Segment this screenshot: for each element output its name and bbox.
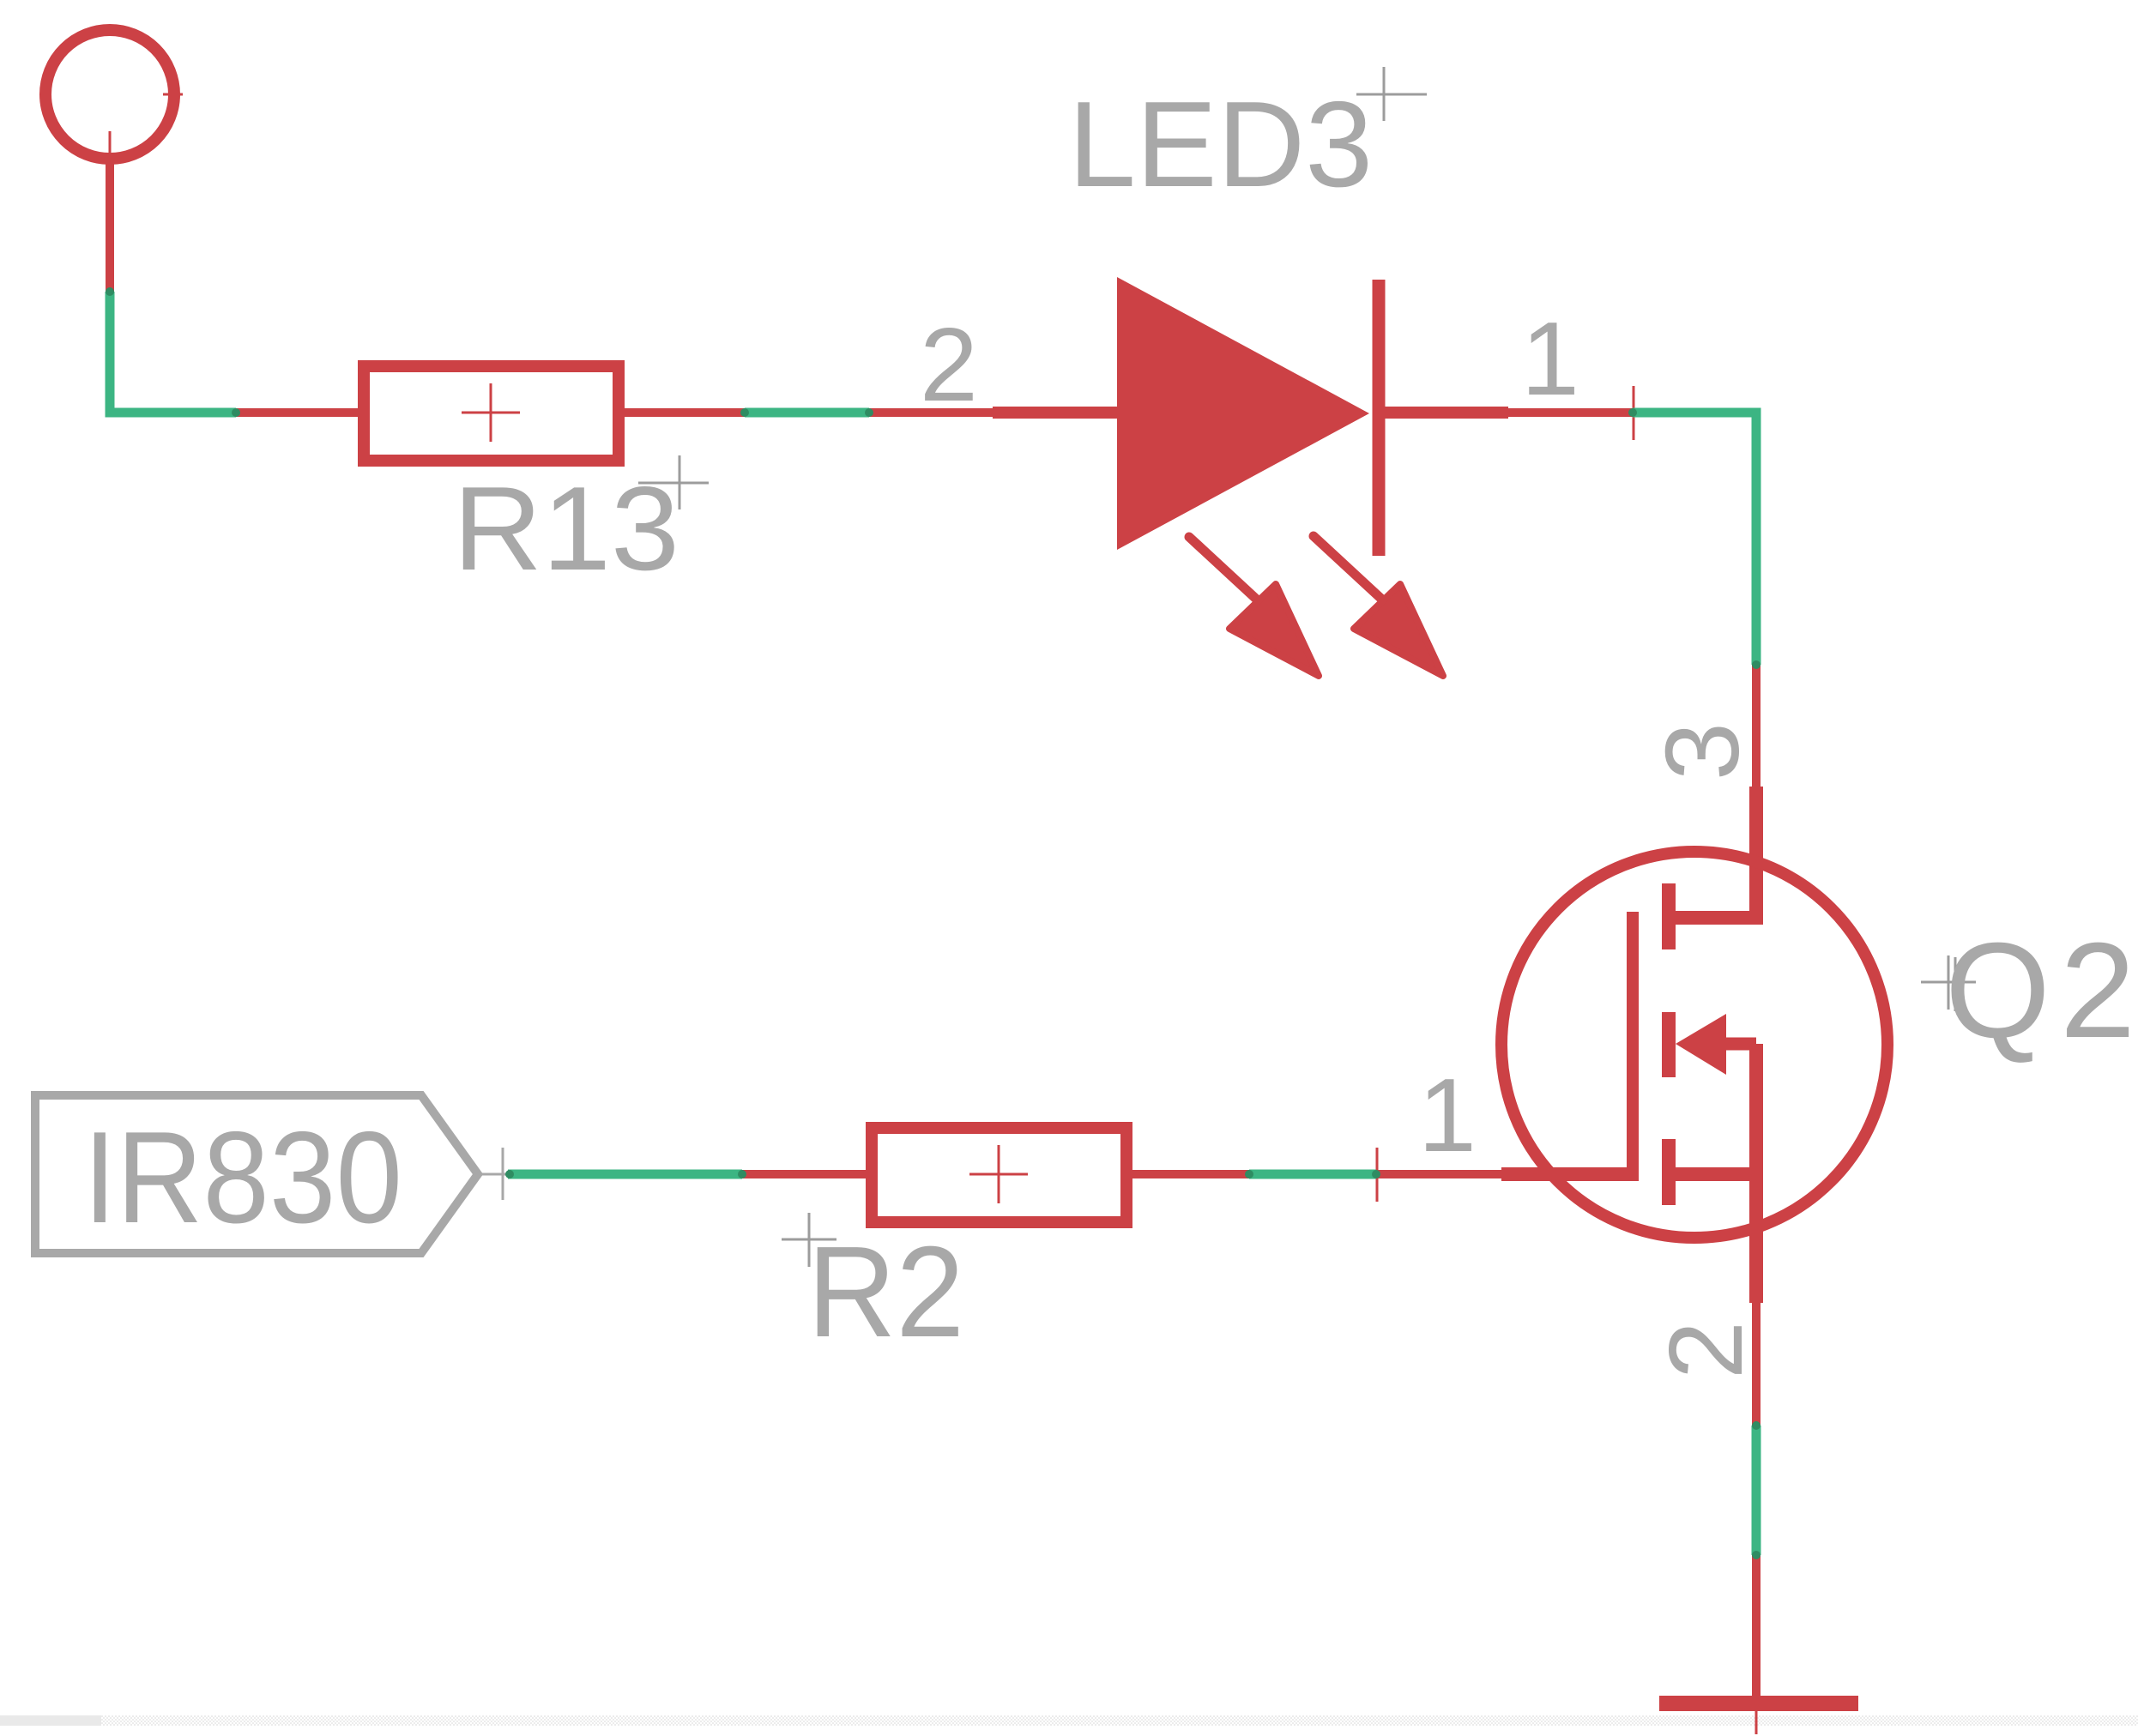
svg-text:IR830: IR830 xyxy=(83,1105,402,1251)
svg-text:R2: R2 xyxy=(807,1219,964,1364)
svg-text:LED3: LED3 xyxy=(1068,76,1373,213)
svg-text:Q2: Q2 xyxy=(1945,915,2135,1066)
svg-text:2: 2 xyxy=(1647,1321,1764,1379)
svg-text:1: 1 xyxy=(1418,1057,1477,1173)
svg-text:1: 1 xyxy=(1521,300,1579,417)
svg-text:3: 3 xyxy=(1644,722,1761,781)
svg-text:2: 2 xyxy=(920,306,978,423)
svg-text:R13: R13 xyxy=(453,462,679,595)
